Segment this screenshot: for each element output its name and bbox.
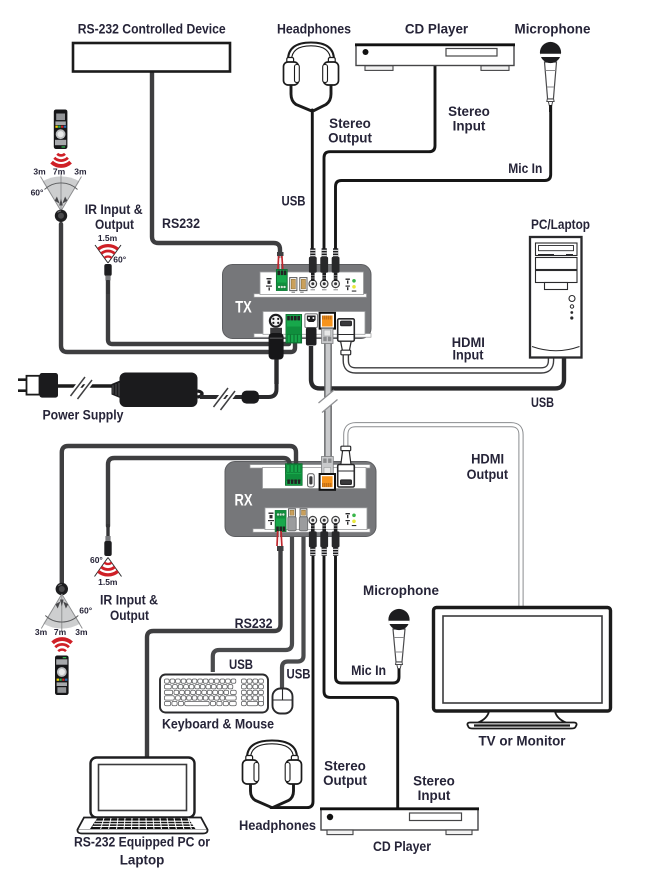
- headphones bottom: [243, 741, 302, 808]
- AC plug: [18, 373, 58, 398]
- svg-text:RS-232 Controlled Device: RS-232 Controlled Device: [78, 22, 226, 37]
- svg-text:Output: Output: [328, 131, 372, 146]
- plug stereo in: [320, 248, 328, 281]
- svg-text:CD Player: CD Player: [405, 22, 469, 37]
- RX top: HDMI plug (white) from above: [338, 446, 355, 487]
- wire Cat5 TX to RX: [319, 340, 338, 462]
- svg-text:7m: 7m: [53, 167, 66, 177]
- svg-text:Output: Output: [110, 608, 149, 623]
- break mark on Cat5: [319, 390, 338, 413]
- svg-text:1.5m: 1.5m: [98, 233, 118, 243]
- svg-text:3m: 3m: [75, 627, 88, 637]
- TX top: USB-A ports x2: [290, 278, 307, 293]
- RX bottom: LEDs: [346, 513, 357, 526]
- IR signal arcs below remote: [52, 154, 71, 166]
- wire RS232 device to TX: [152, 71, 280, 256]
- svg-text:Microphone: Microphone: [515, 22, 591, 37]
- TX top: tiny port glyphs: [266, 278, 272, 291]
- IR receiver top: [55, 210, 67, 222]
- keyboard: [160, 675, 268, 713]
- svg-text:IR Input &: IR Input &: [100, 593, 158, 608]
- svg-text:TX: TX: [235, 299, 252, 317]
- svg-text:Input: Input: [453, 348, 485, 363]
- CD player bottom: [320, 809, 479, 835]
- svg-text:60°: 60°: [79, 606, 92, 616]
- wire RX stereo out jack to headphones: [271, 548, 313, 808]
- svg-text:Stereo: Stereo: [448, 104, 490, 119]
- wire TX HDMI to PC (white HDMI cable): [346, 354, 551, 370]
- svg-text:Mic In: Mic In: [351, 663, 386, 678]
- TX bottom: HDMI plug (white): [338, 319, 355, 355]
- svg-text:Stereo: Stereo: [324, 759, 366, 774]
- TX top: RS-232 phoenix 3-pin (red wires from RS232 cable): [276, 252, 287, 291]
- wire RX USB to mouse: [282, 530, 304, 689]
- headphones top: [284, 43, 339, 111]
- DIN plug barrel: [269, 328, 284, 360]
- IR signal arcs above remote bottom: [53, 639, 72, 651]
- svg-text:Keyboard & Mouse: Keyboard & Mouse: [162, 717, 274, 732]
- RX top: IR phoenix 4-pin with wires up: [286, 464, 303, 486]
- svg-text:RS-232 Equipped PC or: RS-232 Equipped PC or: [74, 835, 211, 850]
- svg-text:Stereo: Stereo: [329, 116, 371, 131]
- TX bottom: IR phoenix 4-pin with wires down: [286, 315, 302, 344]
- TX chassis: [223, 265, 372, 339]
- cord up to TX DIN: [274, 354, 278, 384]
- TX top: LEDs: [346, 279, 357, 292]
- RX bottom: tiny glyphs: [268, 513, 274, 526]
- IR pickup fan bottom: [41, 594, 82, 633]
- svg-text:RX: RX: [235, 492, 253, 510]
- PC tower: [530, 237, 582, 358]
- wire microphone to TX mic in jack: [336, 103, 551, 250]
- CD player top: [355, 45, 515, 71]
- TX top panel: [254, 294, 367, 297]
- wire IR emitter 2 to RX: [108, 458, 290, 526]
- wire IR receiver 1 to TX: [61, 224, 295, 352]
- TX bottom: DIN power socket: [269, 314, 283, 332]
- TX bottom panel: [254, 334, 371, 338]
- plug stereo out: [309, 248, 317, 281]
- svg-text:Input: Input: [418, 788, 451, 803]
- svg-text:USB: USB: [282, 194, 306, 209]
- ferrite bead: [242, 391, 260, 404]
- svg-text:USB: USB: [531, 395, 554, 410]
- svg-text:7m: 7m: [54, 627, 67, 637]
- IR remote bottom: [55, 656, 69, 696]
- wire TX USB-B to PC (black USB cable): [311, 346, 564, 388]
- IR pickup fan top: [41, 173, 82, 212]
- microphone bottom: [388, 609, 409, 669]
- svg-text:TV or Monitor: TV or Monitor: [478, 734, 566, 749]
- svg-text:Power Supply: Power Supply: [43, 408, 125, 423]
- svg-text:Headphones: Headphones: [239, 818, 316, 833]
- svg-text:Microphone: Microphone: [363, 583, 439, 598]
- svg-text:RS232: RS232: [162, 216, 200, 231]
- wire RX stereo in jack to CD player: [324, 548, 398, 809]
- svg-text:Headphones: Headphones: [277, 22, 351, 37]
- plug mic in: [332, 248, 340, 281]
- svg-text:Mic In: Mic In: [508, 161, 542, 176]
- TX top: 3.5mm jacks x3 with plugs: [309, 248, 340, 289]
- IR remote top: [54, 110, 68, 150]
- power brick: [112, 373, 203, 408]
- RX bottom panel: [253, 529, 370, 532]
- RX chassis: [225, 462, 376, 537]
- svg-text:Output: Output: [95, 217, 134, 232]
- wire CD player to TX stereo in jack: [324, 65, 435, 250]
- svg-text:RS232: RS232: [235, 616, 273, 631]
- svg-text:60°: 60°: [31, 188, 44, 198]
- RX top panel: [250, 465, 370, 468]
- RS-232 controlled device box: [73, 43, 230, 72]
- IR emitter top: [95, 245, 121, 294]
- svg-text:60°: 60°: [113, 255, 126, 265]
- wire RX mic jack to microphone: [336, 548, 400, 683]
- svg-text:USB: USB: [229, 657, 253, 672]
- laptop: [77, 758, 207, 834]
- TV: [434, 608, 611, 729]
- power cord plug to brick: [56, 384, 118, 388]
- microphone top: [540, 42, 561, 112]
- svg-text:3m: 3m: [74, 167, 87, 177]
- svg-text:CD Player: CD Player: [373, 839, 432, 854]
- cord brick to ferrite with break: [200, 380, 277, 397]
- RX top: RJ45 port with plug from above: [320, 457, 335, 490]
- RX bottom: 3.5mm jacks x3 with plugs down: [309, 516, 340, 555]
- svg-text:Stereo: Stereo: [413, 774, 455, 789]
- IR emitter bottom: [95, 524, 122, 577]
- RX bottom: RS-232 phoenix 3-pin with red wires down: [275, 511, 286, 552]
- mouse: [273, 689, 293, 714]
- wire RX HDMI to TV (white HDMI cable): [346, 425, 521, 607]
- wire IR emitter 1 to TX: [108, 278, 289, 344]
- svg-text:1.5m: 1.5m: [98, 577, 118, 587]
- break mark on cord: [71, 377, 93, 399]
- RX top: USB port: [308, 474, 315, 487]
- svg-text:3m: 3m: [35, 627, 48, 637]
- wire headphones to TX stereo out jack: [311, 110, 314, 250]
- svg-text:Output: Output: [323, 773, 367, 788]
- svg-text:USB: USB: [287, 667, 311, 682]
- TX bottom: RJ45 port with plug: [320, 313, 335, 344]
- svg-text:60°: 60°: [90, 555, 103, 565]
- svg-text:Input: Input: [453, 119, 486, 134]
- svg-text:IR Input &: IR Input &: [85, 202, 143, 217]
- svg-text:HDMI: HDMI: [471, 451, 504, 466]
- RX bottom: USB plugs x2 going down: [288, 509, 308, 531]
- wire RX USB to keyboard: [213, 530, 292, 672]
- TX bottom: USB-B port with black plug: [305, 314, 318, 346]
- svg-text:Output: Output: [467, 467, 509, 482]
- svg-text:PC/Laptop: PC/Laptop: [531, 217, 590, 232]
- svg-text:3m: 3m: [33, 167, 46, 177]
- wire IR receiver 2 to RX: [62, 446, 296, 584]
- svg-text:Laptop: Laptop: [120, 853, 165, 868]
- IR receiver bottom: [56, 583, 68, 595]
- wire RX RS232 to laptop: [147, 550, 281, 757]
